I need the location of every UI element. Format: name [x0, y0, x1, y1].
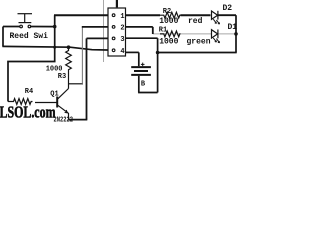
wire: step down: [152, 27, 154, 34]
plus sign: [141, 63, 145, 65]
pin 1: [112, 14, 115, 17]
resistor R1: [160, 31, 181, 37]
transistor Q1: [57, 89, 68, 114]
wire: pin2 row: [82, 26, 112, 28]
svg-text:R4: R4: [25, 88, 33, 96]
wire: right rail vertical: [235, 15, 237, 52]
resistor R3: [66, 47, 72, 88]
battery B1: [131, 67, 151, 75]
node junction ground rail: [156, 51, 160, 55]
wire: pin3 drop to emitter loop: [86, 38, 88, 119]
resistor R4: [8, 99, 33, 105]
svg-text:D2: D2: [223, 4, 233, 13]
LED D2: [212, 11, 218, 20]
svg-text:R3: R3: [58, 73, 66, 81]
svg-text:Q1: Q1: [50, 91, 58, 99]
wire: battery minus down: [138, 76, 140, 93]
gray stray vertical line: [103, 0, 105, 62]
connector J1 box: [108, 8, 126, 56]
pin 2: [112, 26, 115, 29]
LED D1: [212, 30, 218, 39]
node junction at left rail: [53, 46, 56, 49]
node junction R3 top: [67, 45, 71, 49]
wire: pin3 right row: [126, 37, 158, 39]
wire: top rail from switch junction to pin1: [54, 14, 112, 16]
wire: D2 to right rail: [217, 14, 236, 16]
node junction at switch right: [53, 25, 57, 29]
reed switch S1: [18, 14, 33, 28]
wire: switch right lead: [31, 26, 55, 28]
wire: bottom loop: [69, 119, 88, 121]
wire: pin4 right to battery: [126, 51, 139, 53]
wire: base wire: [35, 102, 57, 104]
wire: left rail: [2, 46, 113, 50]
wire: bottom right rail: [158, 52, 237, 54]
node junction D1 cathode: [234, 32, 238, 36]
svg-text:3: 3: [120, 36, 124, 44]
resistor R2: [160, 12, 181, 18]
svg-text:green: green: [187, 38, 211, 47]
pin 3: [112, 37, 115, 40]
svg-text:1000: 1000: [159, 17, 178, 26]
wire: branch collector node to pin2 drop: [69, 83, 84, 85]
label J1 fragment: [116, 0, 118, 7]
wire: R2 to D2: [181, 14, 211, 16]
wire: left vertical: [2, 27, 4, 47]
svg-text:1000: 1000: [159, 38, 178, 47]
svg-text:4: 4: [120, 48, 124, 56]
wire: battery bottom loop: [138, 92, 158, 94]
svg-text:Reed Swi: Reed Swi: [10, 32, 49, 41]
wire: switch bridge vertical: [54, 15, 56, 47]
svg-text:red: red: [188, 17, 203, 26]
wire: switch left lead: [3, 26, 20, 28]
wire: R4 left loop: [8, 47, 55, 101]
svg-text:R2: R2: [163, 8, 171, 16]
pin 4: [112, 49, 115, 52]
wire: pin1 row right to R2: [126, 14, 160, 16]
svg-text:1: 1: [120, 13, 124, 21]
wire: ground vertical: [157, 38, 159, 92]
wire: pin2 right row: [126, 26, 153, 28]
svg-text:2: 2: [120, 25, 124, 33]
wire: pin2 gray drop: [81, 27, 83, 84]
svg-text:2N2222: 2N2222: [54, 116, 74, 124]
wire: pin3 row: [87, 37, 113, 39]
svg-text:LSOL.com: LSOL.com: [0, 102, 56, 121]
gray net wire row (R1/D1 feed): [153, 33, 236, 35]
svg-text:R1: R1: [159, 26, 167, 34]
